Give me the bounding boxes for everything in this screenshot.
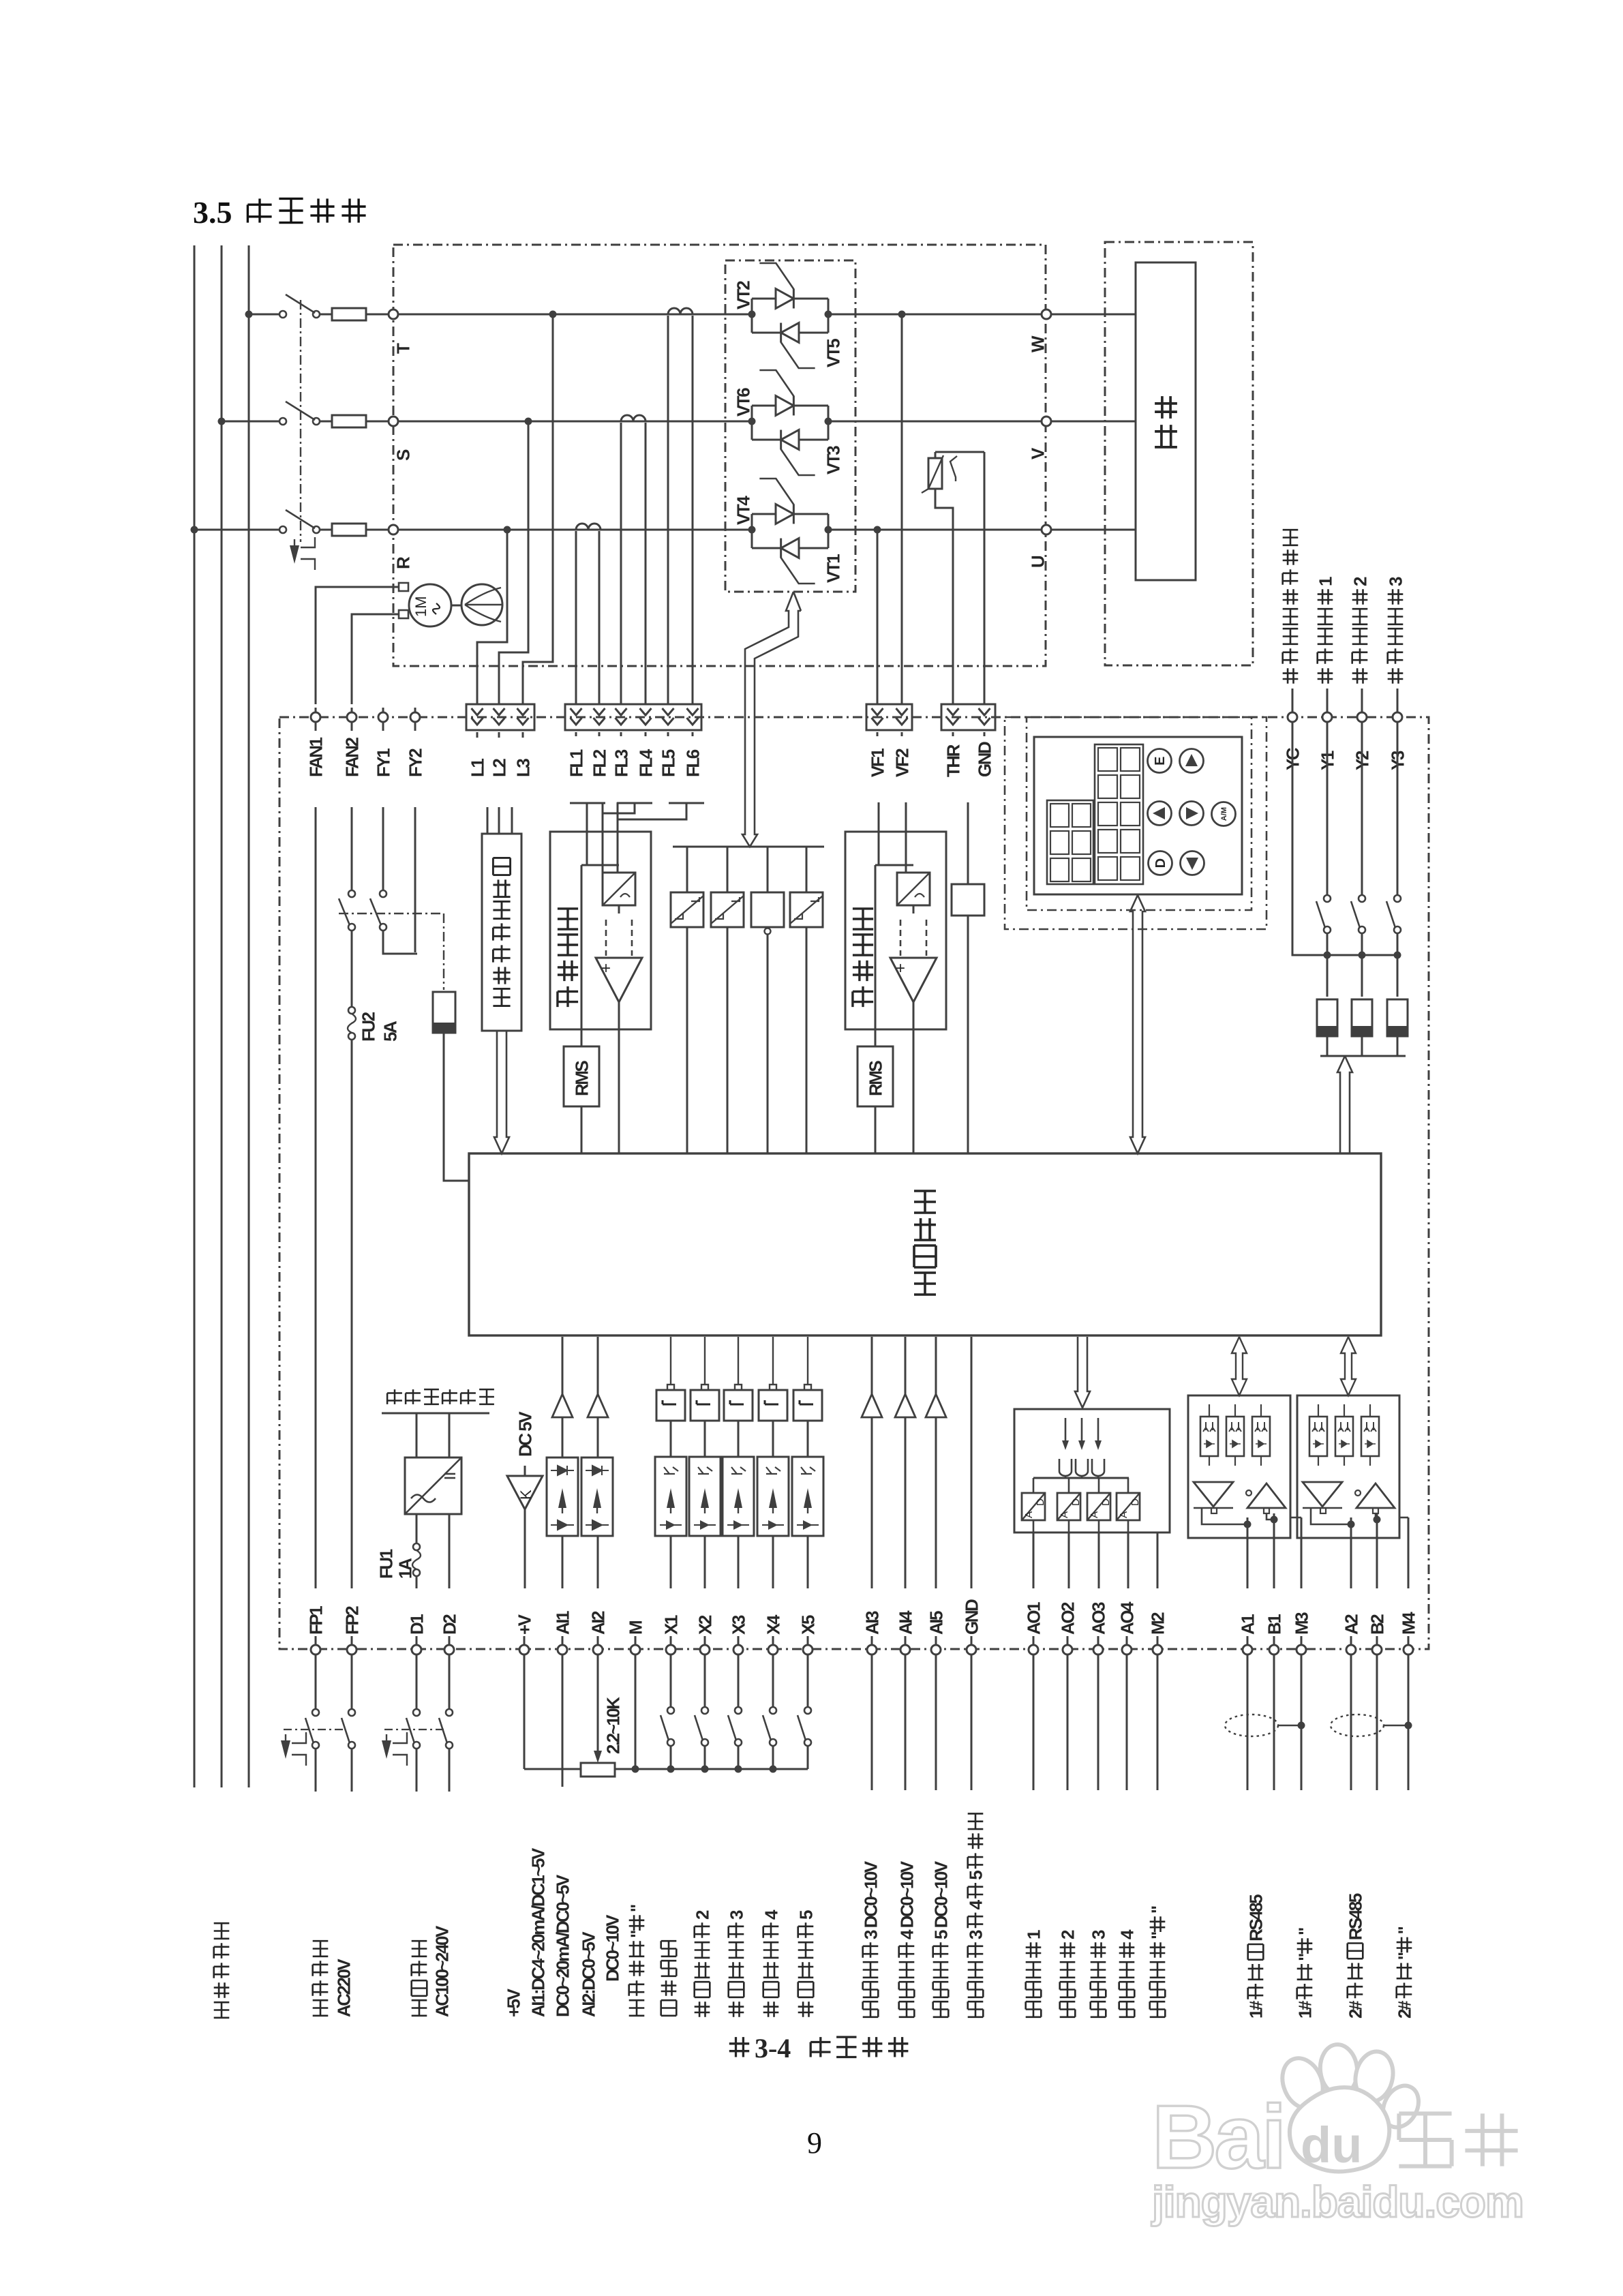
svg-text:VT3: VT3: [823, 446, 843, 474]
svg-text:B1: B1: [1264, 1614, 1284, 1635]
svg-text:jingyan.baidu.com: jingyan.baidu.com: [1151, 2177, 1523, 2226]
external wire: [1376, 1655, 1378, 1790]
terminal Y1: [1322, 712, 1332, 722]
svg-text:3: 3: [1385, 577, 1406, 586]
svg-text:2#: 2#: [1345, 2000, 1365, 2019]
svg-text:FY1: FY1: [373, 749, 393, 777]
svg-text:A: A: [1118, 1511, 1129, 1518]
svg-text:1#: 1#: [1294, 2000, 1315, 2019]
control logic box 控制逻辑: [469, 1153, 1381, 1335]
wire S to L2: [499, 421, 528, 704]
mechanical link dash line FAN2-FY1: [339, 913, 444, 914]
label 模拟输出"地": [1150, 2002, 1166, 2017]
svg-text:1#: 1#: [1245, 2000, 1266, 2019]
wire driver 3 to logic: [767, 935, 769, 1153]
wire to AO3: [1098, 1532, 1100, 1588]
wire VF2 from W: [901, 314, 903, 705]
switch QS phase R: [279, 526, 286, 533]
double arrow logic<->RS485: [1341, 1337, 1356, 1395]
thyristor pair VT4/VT1: [751, 514, 753, 548]
svg-text:": ": [1394, 1952, 1414, 1960]
svg-text:FP1: FP1: [305, 1606, 326, 1635]
terminal M2: [1153, 1645, 1162, 1655]
wire CT secondary to FL1: [575, 531, 577, 704]
wire stub YC: [1292, 689, 1294, 712]
label 控制电源: [412, 2000, 427, 2016]
switch QS phase T: [279, 311, 286, 318]
analog output block: [1014, 1409, 1170, 1532]
wire CT secondary to FL4: [645, 423, 647, 704]
svg-text:+5V: +5V: [503, 1988, 524, 2017]
block 电流反馈 #2: [845, 832, 946, 1029]
label 风机电源: [313, 2000, 329, 2016]
terminal AO1: [1029, 1645, 1038, 1655]
wire logic to AI buffer: [871, 1337, 873, 1394]
keypad outer dash box: [1005, 717, 1266, 929]
wire V to load: [1051, 421, 1136, 423]
RMS block: [564, 1046, 599, 1106]
svg-text:VT6: VT6: [733, 388, 753, 417]
svg-text:": ": [626, 1905, 647, 1912]
wire R to switch: [194, 529, 283, 531]
wire logic GND to terminal: [971, 1337, 973, 1588]
label 模拟输出3: [1091, 2002, 1106, 2017]
terminal R: [389, 525, 398, 534]
wire X opto to terminal: [807, 1536, 809, 1588]
wire K to +V terminal: [524, 1509, 526, 1588]
gate driver square 1: [671, 892, 703, 927]
wire to M2: [1157, 1532, 1159, 1588]
terminal A2: [1346, 1645, 1356, 1655]
svg-text:AC100~240V: AC100~240V: [431, 1925, 452, 2017]
svg-text:+: +: [601, 959, 611, 978]
wire stub Y3: [1397, 689, 1399, 712]
wire R to output U: [828, 529, 1042, 531]
svg-text:RMS: RMS: [865, 1061, 885, 1096]
wire main bus L2: [221, 245, 223, 1787]
wire M down: [635, 1655, 637, 1769]
label 继电器输出3: [1388, 668, 1404, 684]
wire R to L1: [477, 530, 507, 704]
svg-text:X3: X3: [728, 1615, 748, 1635]
svg-text:AI1: AI1: [552, 1611, 573, 1635]
wire driver 2 to logic: [727, 927, 729, 1153]
relay contact Y1: [1326, 722, 1329, 894]
label 继电器输出2: [1352, 668, 1368, 684]
opto isolator AI: [547, 1457, 578, 1536]
svg-text:FAN2: FAN2: [342, 738, 362, 778]
svg-text:D: D: [1129, 1498, 1141, 1506]
svg-text:B2: B2: [1367, 1614, 1387, 1635]
stub below L terminal: [498, 732, 500, 738]
wire logic to X pin: [704, 1337, 706, 1385]
label 开关量输入4: [763, 2002, 779, 2017]
thyristor pair VT6/VT3: [751, 406, 753, 440]
wire RMS to logic: [875, 1106, 877, 1153]
thermal NC contact ST: [950, 456, 957, 481]
wire S inside main box: [398, 421, 752, 423]
node W tap for VF2: [898, 311, 906, 318]
terminal YC: [1288, 712, 1297, 722]
svg-text:X2: X2: [695, 1615, 715, 1635]
current transformer CT phase R: [576, 524, 601, 530]
wire S to switch: [222, 421, 283, 423]
wire T inside main box: [398, 314, 752, 316]
external wire: [935, 1655, 937, 1790]
latch cup: [1059, 1459, 1072, 1476]
thermistor RT on heatsink: [935, 451, 984, 453]
label 开关量输入3: [729, 2002, 744, 2017]
LED display left block: [1047, 800, 1093, 884]
svg-text:3.5: 3.5: [193, 195, 232, 230]
wire FAN1-FP1: [315, 807, 317, 1588]
svg-text:A: A: [1089, 1511, 1100, 1518]
wire L into detect block: [487, 807, 489, 834]
external contact X: [807, 1655, 809, 1706]
svg-text:VT1: VT1: [823, 554, 843, 583]
terminal X4: [768, 1645, 778, 1655]
terminal AI4: [900, 1645, 910, 1655]
inverter box 1: [656, 1390, 685, 1421]
svg-text:X5: X5: [798, 1615, 818, 1635]
svg-text:A/M: A/M: [1220, 807, 1228, 821]
load box 负载: [1136, 262, 1196, 580]
svg-text:5: 5: [965, 1871, 986, 1880]
terminal AO3: [1093, 1645, 1103, 1655]
svg-text:DC0~10V: DC0~10V: [602, 1914, 622, 1982]
wire X opto to terminal: [772, 1536, 774, 1588]
terminal AO4: [1122, 1645, 1132, 1655]
terminal B1: [1269, 1645, 1279, 1655]
svg-text:R: R: [393, 556, 413, 569]
terminal block THR GND: [941, 704, 995, 730]
opto isolator X: [792, 1457, 823, 1536]
external wire: [1247, 1655, 1249, 1790]
D/A box: [1057, 1493, 1080, 1520]
svg-text:AO1: AO1: [1023, 1602, 1044, 1635]
svg-text:E: E: [1153, 757, 1168, 766]
svg-text:FL3: FL3: [611, 749, 631, 777]
gate driver square 2: [711, 892, 744, 927]
svg-text:2.2~10K: 2.2~10K: [603, 1697, 623, 1754]
fan: [461, 584, 502, 625]
terminal AI1: [558, 1645, 567, 1655]
node tap S on main bus: [218, 418, 226, 425]
svg-text:VT5: VT5: [823, 339, 843, 367]
shielded cable 1: [1225, 1715, 1278, 1736]
svg-text:K: K: [517, 1490, 534, 1500]
terminal AO2: [1063, 1645, 1072, 1655]
block 主回路电源检测: [482, 834, 521, 1031]
svg-text:D: D: [1035, 1498, 1046, 1506]
watermark baidu paw: [1275, 2042, 1425, 2171]
svg-text:": ": [1147, 1906, 1168, 1914]
fuse FU phase R: [320, 529, 332, 531]
label 多路隔离电源: [387, 1389, 402, 1404]
wire GND from assembly: [984, 452, 986, 705]
wire main bus L1: [194, 245, 196, 1787]
wire VF1 from U: [877, 530, 879, 705]
svg-text:THR: THR: [943, 744, 963, 777]
terminal D2: [444, 1645, 454, 1655]
relay coil 2: [1352, 999, 1372, 1036]
svg-text:VF1: VF1: [867, 749, 888, 777]
external wire: [1273, 1655, 1275, 1790]
svg-text:3: 3: [726, 1910, 746, 1920]
wire D2: [449, 1514, 451, 1588]
wire M line: [1408, 1517, 1410, 1588]
external contact X: [738, 1655, 740, 1706]
inverter box 1: [691, 1390, 719, 1421]
svg-text:2: 2: [1057, 1930, 1078, 1939]
wire W to load: [1051, 314, 1136, 316]
opto isolator AI: [581, 1457, 613, 1536]
wire FY1 switch to FY2: [383, 931, 417, 954]
svg-text:+: +: [896, 959, 905, 978]
node R drop: [504, 526, 511, 534]
wire R inside main box: [398, 529, 752, 531]
svg-text:": ": [1294, 1928, 1315, 1935]
svg-text:VT4: VT4: [733, 496, 753, 525]
wire stub Y2: [1361, 689, 1363, 712]
wire logic to AI buffer: [597, 1337, 599, 1394]
wires motor to FAN1 FAN2: [316, 587, 399, 704]
svg-text:X4: X4: [763, 1614, 783, 1635]
external wire: [1157, 1655, 1159, 1790]
button left arrow: [1148, 802, 1172, 826]
arrow in DAC: [1065, 1418, 1067, 1444]
wire +V down: [524, 1655, 526, 1769]
svg-text:1M: 1M: [412, 596, 429, 617]
svg-text:D: D: [1100, 1498, 1112, 1506]
label 运行允许: [661, 2000, 677, 2016]
svg-text:1: 1: [1023, 1930, 1044, 1939]
DC/DC converter box: [405, 1457, 461, 1514]
node S drop: [525, 418, 532, 425]
wire logic to AI buffer: [562, 1337, 564, 1394]
svg-text:A: A: [1023, 1511, 1035, 1518]
terminal M4: [1404, 1645, 1413, 1655]
op-amp: [596, 958, 642, 1002]
terminal V: [1042, 417, 1051, 426]
wire THR down: [952, 732, 954, 736]
wire logic to X pin: [670, 1337, 671, 1385]
current transformer CT phase T: [668, 308, 693, 314]
main circuit dashed box: [393, 245, 1046, 666]
svg-text:AI5: AI5: [926, 1611, 946, 1635]
wire logic to AI buffer: [905, 1337, 907, 1394]
external wire: [905, 1655, 907, 1790]
svg-text:+V: +V: [514, 1614, 534, 1635]
label 继电器输出公共端: [1283, 668, 1299, 684]
terminal A1: [1243, 1645, 1252, 1655]
svg-text:M4: M4: [1398, 1612, 1419, 1635]
wire S to output V: [828, 421, 1042, 423]
wire into feedback block: [586, 802, 588, 832]
svg-text:GND: GND: [974, 742, 995, 777]
fuse FU1: [416, 1514, 418, 1543]
svg-text:": ": [626, 1931, 647, 1938]
wire T to switch: [249, 314, 283, 316]
svg-text:D1: D1: [406, 1614, 427, 1635]
wire X opto to terminal: [670, 1536, 672, 1588]
terminal S: [389, 417, 398, 426]
button down arrow: [1181, 851, 1204, 875]
svg-text:AC220V: AC220V: [333, 1959, 354, 2017]
node tap T on main bus: [245, 311, 253, 318]
terminal FAN1: [311, 712, 320, 722]
svg-text:DC0~20mA/DC0~5V: DC0~20mA/DC0~5V: [552, 1874, 573, 2017]
terminal AI3: [867, 1645, 877, 1655]
button right arrow: [1180, 802, 1204, 826]
terminal D1: [412, 1645, 421, 1655]
external contact X: [670, 1655, 672, 1706]
double arrow logic<->RS485: [1232, 1337, 1247, 1395]
wire logic to X pin: [738, 1337, 739, 1385]
YC common wire: [1292, 722, 1399, 955]
svg-text:S: S: [393, 449, 413, 461]
load dashed box: [1105, 242, 1253, 665]
relay coil 3: [1387, 999, 1408, 1036]
external wire: [971, 1655, 973, 1790]
keypad-logic double arrow: [1130, 895, 1145, 1153]
D/A box: [1117, 1493, 1140, 1520]
terminal M: [631, 1645, 640, 1655]
svg-text:L1: L1: [467, 759, 487, 777]
keypad inner dash box: [1027, 717, 1252, 910]
wire AI1 external: [562, 1655, 564, 1787]
svg-text:RS485: RS485: [1245, 1894, 1266, 1942]
relay coil common rail: [1320, 1055, 1406, 1057]
svg-text:VT2: VT2: [733, 281, 753, 309]
terminal FAN2: [347, 712, 357, 722]
terminal W: [1042, 309, 1051, 319]
wire FY2 down: [414, 807, 416, 952]
gate driver square 3: [751, 892, 784, 927]
switch on FY1 line: [382, 807, 384, 890]
svg-text:AO2: AO2: [1057, 1602, 1078, 1635]
svg-text:FU1: FU1: [376, 1549, 396, 1579]
terminal FP1: [311, 1645, 320, 1655]
RS485 module #2: [1297, 1395, 1399, 1538]
svg-text:W: W: [1027, 335, 1048, 352]
D/A box: [1087, 1493, 1110, 1520]
svg-text:L2: L2: [489, 759, 509, 777]
potentiometer 2.2-10K: [581, 1763, 615, 1777]
isolated supply bus: [382, 1413, 489, 1415]
svg-text:4 DC0~10V: 4 DC0~10V: [896, 1860, 917, 1939]
external wire: [871, 1655, 873, 1790]
svg-text:AO4: AO4: [1117, 1601, 1137, 1635]
hollow arrow logic->relays: [1337, 1056, 1352, 1153]
svg-text:VF2: VF2: [892, 749, 912, 777]
node T drop: [549, 311, 557, 318]
inverter box 1: [759, 1390, 787, 1421]
wire stub Y1: [1326, 689, 1329, 712]
wire X opto to terminal: [738, 1536, 740, 1588]
wire op-amp out to logic: [913, 1002, 915, 1153]
svg-text:FL5: FL5: [658, 749, 678, 777]
VT module dash box: [725, 260, 855, 592]
svg-text:M3: M3: [1291, 1612, 1311, 1635]
wire THR to logic: [967, 916, 969, 1153]
svg-text:FL1: FL1: [566, 749, 586, 777]
svg-text:": ": [1294, 1954, 1315, 1961]
svg-text:M2: M2: [1147, 1612, 1168, 1635]
wire FAN2 to FU2: [351, 931, 353, 1006]
terminal AI2: [593, 1645, 603, 1655]
FL pair merge bars: [570, 802, 605, 804]
svg-text:FL6: FL6: [682, 749, 703, 777]
terminal U: [1042, 525, 1051, 534]
arrow in DAC: [1097, 1418, 1099, 1444]
external bus: [524, 1768, 581, 1770]
svg-text:AI2:DC0~5V: AI2:DC0~5V: [578, 1931, 598, 2017]
svg-text:du: du: [1301, 2117, 1362, 2173]
wire into feedback block: [617, 802, 619, 832]
button up arrow: [1180, 749, 1204, 773]
svg-text:FL4: FL4: [635, 749, 656, 777]
terminal block L1 L2 L3: [466, 704, 534, 730]
pin square: [770, 1385, 776, 1390]
LED display right block: [1095, 744, 1143, 884]
hollow arrow logic->DAC: [1075, 1337, 1090, 1408]
wire U to load: [1051, 529, 1136, 531]
caption 图3-4 连接框图: [729, 2037, 749, 2057]
terminal FY2: [410, 712, 420, 722]
manual trip symbol: [290, 545, 299, 564]
external pushbutton pair FP: [315, 1655, 317, 1708]
external pushbutton pair D: [416, 1655, 418, 1708]
wire T to L3: [523, 314, 553, 704]
button D: [1149, 851, 1172, 875]
link to sensing element: [443, 913, 444, 990]
wire driver 1 to logic: [686, 927, 688, 1153]
wire logic to AI buffer: [935, 1337, 937, 1394]
wire L into detect block: [498, 807, 500, 834]
terminal block VF1 VF2: [866, 704, 912, 730]
wiper arrow AI2: [597, 1655, 599, 1751]
wire M line: [1301, 1517, 1303, 1588]
terminal AI5: [931, 1645, 941, 1655]
wire bus to driver 2: [727, 847, 729, 892]
svg-text:AO3: AO3: [1088, 1602, 1108, 1635]
svg-text:2: 2: [1350, 577, 1370, 586]
wire sensing to control logic: [444, 1033, 469, 1181]
svg-text:D2: D2: [439, 1614, 459, 1635]
pin square: [701, 1385, 708, 1390]
wire op-amp out to logic: [618, 1002, 620, 1153]
external wire: [1067, 1655, 1069, 1790]
svg-text:3: 3: [965, 1930, 986, 1939]
wire bus to driver 1: [686, 847, 688, 892]
terminal GND: [967, 1645, 976, 1655]
wire bus to driver 4: [806, 847, 808, 892]
amp K triangle: [524, 1466, 526, 1476]
hollow arrow detect->logic: [494, 1031, 509, 1153]
wire X opto to terminal: [704, 1536, 706, 1588]
gate driver square 4: [790, 892, 823, 927]
external wire: [1350, 1655, 1352, 1790]
wire CT secondary to FL2: [598, 531, 601, 704]
svg-text:2#: 2#: [1394, 2000, 1414, 2019]
svg-text:AI3: AI3: [862, 1611, 882, 1635]
svg-text:FP2: FP2: [342, 1606, 362, 1635]
svg-text:U: U: [1027, 556, 1048, 568]
fan motor 1M: [409, 584, 451, 626]
svg-text:Bai: Bai: [1152, 2087, 1284, 2187]
button A/M: [1212, 802, 1236, 826]
